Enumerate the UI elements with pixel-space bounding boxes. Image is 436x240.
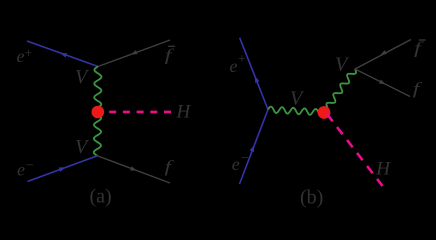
label e- (a) bbox=[17, 159, 34, 180]
positron line e+ (diagram b) bbox=[240, 38, 268, 110]
svg-text:V: V bbox=[290, 88, 305, 110]
svg-text:−: − bbox=[26, 159, 34, 174]
vertex blob (a) bbox=[92, 106, 105, 119]
svg-text:f: f bbox=[414, 38, 424, 57]
svg-text:e: e bbox=[17, 46, 25, 66]
svg-text:e: e bbox=[17, 160, 25, 180]
label e+ (b) bbox=[230, 52, 247, 76]
label e- (b) bbox=[232, 151, 249, 174]
svg-text:V: V bbox=[75, 136, 90, 158]
higgs dashed line H (b) bbox=[327, 114, 383, 186]
svg-text:(a): (a) bbox=[90, 186, 112, 208]
svg-text:V: V bbox=[75, 66, 90, 88]
positron line e+ (diagram a) bbox=[27, 41, 98, 67]
higgs dashed line H (a) bbox=[109, 111, 171, 114]
svg-text:H: H bbox=[375, 159, 391, 180]
svg-text:+: + bbox=[238, 52, 246, 67]
svg-text:+: + bbox=[25, 46, 33, 61]
vertex blob (b) bbox=[318, 106, 331, 119]
fermion line f (a) bbox=[97, 156, 170, 183]
boson propagator V horizontal wavy (b) bbox=[268, 107, 324, 116]
boson propagator V wavy line (a) bbox=[94, 67, 102, 156]
svg-text:e: e bbox=[232, 154, 240, 174]
electron line e- (a) bbox=[28, 156, 98, 182]
svg-text:(b): (b) bbox=[300, 186, 323, 208]
svg-text:e: e bbox=[230, 56, 238, 76]
boson line V diagonal wavy (b) bbox=[324, 69, 356, 113]
antifermion line fbar (a) bbox=[98, 40, 170, 67]
label fbar (a) bbox=[165, 46, 175, 64]
svg-text:V: V bbox=[335, 54, 350, 76]
electron line e- (b) bbox=[240, 110, 269, 185]
label e+ (a) bbox=[17, 46, 33, 66]
svg-text:−: − bbox=[241, 151, 249, 166]
fermion line f (b) bbox=[355, 69, 410, 97]
label f (b) bbox=[413, 80, 423, 98]
svg-text:f: f bbox=[413, 80, 423, 98]
label f (a) bbox=[165, 158, 175, 176]
antifermion line fbar (b) bbox=[355, 40, 411, 70]
svg-text:f: f bbox=[165, 158, 175, 176]
svg-text:H: H bbox=[176, 102, 192, 123]
svg-text:f: f bbox=[165, 46, 175, 64]
label fbar (b) bbox=[414, 38, 426, 57]
